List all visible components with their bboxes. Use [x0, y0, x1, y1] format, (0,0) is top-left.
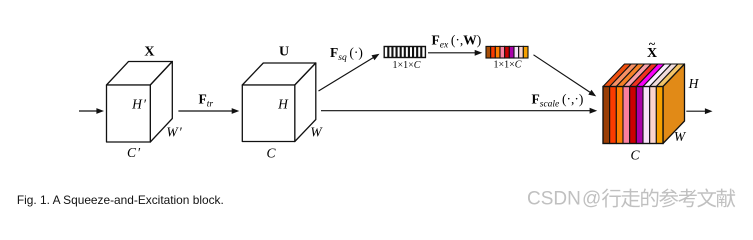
svg-text:~: ~: [649, 37, 656, 51]
watermark hanzi 1: [621, 189, 640, 208]
watermark hanzi 2: [641, 188, 658, 207]
arrow F_scale: [321, 108, 597, 114]
output cube right face (solid orange): [663, 64, 685, 144]
svg-text:H ′: H ′: [131, 97, 147, 112]
watermark hanzi 0: [602, 189, 621, 208]
svg-text:C ′: C ′: [127, 145, 141, 160]
svg-text:W ′: W ′: [166, 125, 182, 140]
input arrow: [79, 108, 104, 114]
input tensor X cube right face: [150, 62, 172, 143]
svg-text:C: C: [266, 146, 276, 161]
svg-text:H: H: [277, 97, 289, 112]
watermark hanzi 5: [697, 188, 716, 207]
svg-text:1×1×C: 1×1×C: [494, 60, 522, 71]
svg-text:H: H: [688, 76, 700, 91]
svg-text:X: X: [144, 45, 154, 60]
output tensor X-tilde cube colored slices: [603, 64, 685, 144]
excitation vector 1x1xC (colored): [486, 46, 528, 58]
svg-text:W: W: [674, 129, 687, 144]
svg-text:@: @: [582, 189, 601, 210]
feature map U cube front face: [242, 85, 294, 142]
watermark hanzi 4: [678, 189, 696, 208]
watermark hanzi 3: [659, 188, 678, 207]
watermark hanzi 6: [717, 189, 736, 208]
feature map U cube right face: [295, 63, 316, 142]
arrow F_sq: [319, 54, 380, 91]
arrow F_tr: [178, 108, 239, 114]
feature map U cube top face: [242, 63, 315, 85]
squeezed vector 1x1xC (striped): [384, 47, 425, 58]
input tensor X cube front face: [107, 85, 151, 142]
arrow excitation to scale: [534, 55, 597, 97]
svg-text:U: U: [279, 44, 289, 59]
svg-text:W: W: [310, 125, 323, 140]
svg-text:1×1×C: 1×1×C: [393, 60, 421, 71]
output arrow: [686, 108, 712, 114]
svg-text:C: C: [630, 148, 640, 163]
input tensor X cube top face: [107, 62, 173, 86]
svg-text:CSDN: CSDN: [527, 189, 581, 210]
arrow F_ex: [428, 50, 482, 56]
svg-text:Fig. 1. A Squeeze-and-Excitati: Fig. 1. A Squeeze-and-Excitation block.: [17, 193, 224, 207]
